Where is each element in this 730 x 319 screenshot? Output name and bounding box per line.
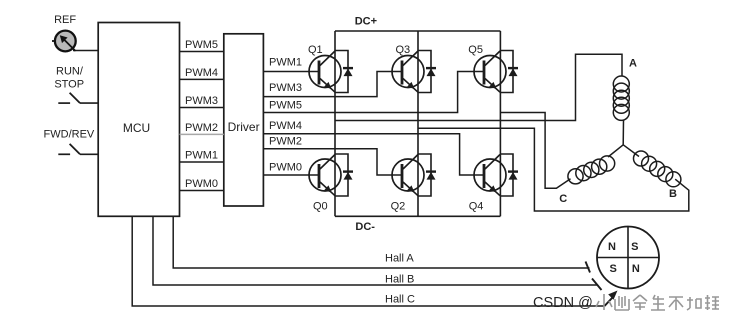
svg-text:Driver: Driver bbox=[228, 120, 260, 134]
svg-text:A: A bbox=[629, 57, 637, 69]
svg-text:PWM0: PWM0 bbox=[185, 178, 218, 190]
svg-text:PWM0: PWM0 bbox=[269, 162, 302, 174]
svg-text:DC-: DC- bbox=[355, 221, 375, 233]
svg-text:PWM4: PWM4 bbox=[269, 120, 302, 132]
svg-text:C: C bbox=[559, 193, 567, 205]
svg-text:PWM2: PWM2 bbox=[185, 122, 218, 134]
svg-text:PWM1: PWM1 bbox=[269, 57, 302, 69]
svg-text:PWM1: PWM1 bbox=[185, 150, 218, 162]
svg-text:Q1: Q1 bbox=[308, 44, 323, 56]
svg-text:S: S bbox=[610, 263, 617, 275]
svg-text:CSDN @: CSDN @ bbox=[533, 295, 593, 311]
svg-text:PWM2: PWM2 bbox=[269, 136, 302, 148]
svg-text:Q2: Q2 bbox=[391, 201, 406, 213]
svg-text:RUN/: RUN/ bbox=[56, 66, 84, 78]
svg-text:Hall C: Hall C bbox=[385, 294, 415, 306]
svg-text:Q0: Q0 bbox=[313, 201, 328, 213]
svg-text:PWM3: PWM3 bbox=[185, 95, 218, 107]
svg-text:REF: REF bbox=[54, 14, 76, 26]
svg-text:Q3: Q3 bbox=[396, 44, 411, 56]
svg-text:PWM4: PWM4 bbox=[185, 67, 218, 79]
svg-text:Hall B: Hall B bbox=[385, 274, 414, 286]
svg-text:MCU: MCU bbox=[123, 121, 150, 135]
svg-text:FWD/REV: FWD/REV bbox=[44, 129, 95, 141]
svg-text:Q4: Q4 bbox=[469, 201, 484, 213]
svg-text:PWM5: PWM5 bbox=[269, 100, 302, 112]
svg-text:N: N bbox=[632, 263, 640, 275]
svg-text:S: S bbox=[631, 241, 638, 253]
svg-text:N: N bbox=[608, 241, 616, 253]
svg-text:PWM5: PWM5 bbox=[185, 39, 218, 51]
svg-text:DC+: DC+ bbox=[355, 16, 377, 28]
svg-text:STOP: STOP bbox=[54, 79, 84, 91]
svg-text:B: B bbox=[669, 188, 677, 200]
svg-text:Hall A: Hall A bbox=[385, 253, 414, 265]
svg-text:PWM3: PWM3 bbox=[269, 82, 302, 94]
svg-text:Q5: Q5 bbox=[468, 44, 483, 56]
